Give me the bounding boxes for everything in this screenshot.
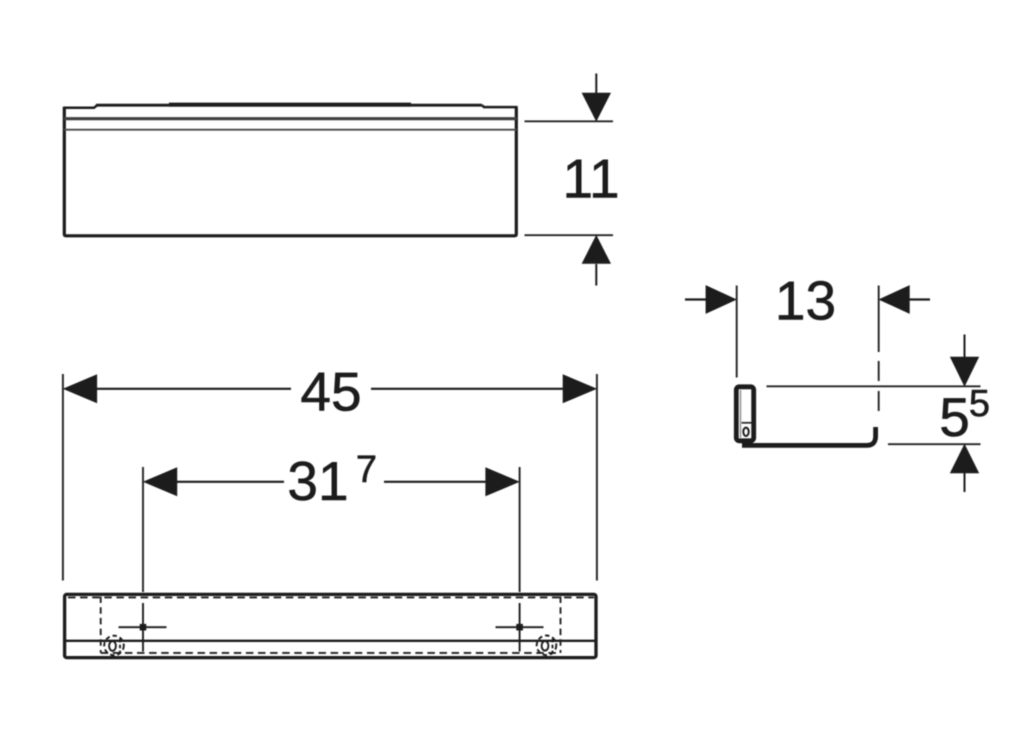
dim 11 top arrow: [583, 74, 610, 121]
front view lower thin line: [64, 129, 517, 131]
svg-text:31: 31: [287, 450, 348, 512]
side view wall flange: [736, 387, 753, 441]
plan view hidden bottom edge (dashed): [101, 652, 561, 654]
front view top edge right segment: [482, 105, 518, 107]
dim 45 left extension line: [62, 374, 64, 581]
dim 45 right extension line: [596, 374, 598, 581]
dim 13 right extension line dashed part: [878, 361, 880, 411]
dim 11 bottom extension line: [525, 234, 614, 236]
svg-text:5: 5: [969, 383, 990, 425]
right mounting hole centerline horizontal: [496, 626, 544, 628]
dim 13 right extension line solid part: [878, 286, 880, 353]
dim 5.5 top reference line: [767, 385, 981, 387]
right mounting hole center dot: [516, 624, 523, 631]
svg-text:7: 7: [356, 449, 377, 491]
front view shelf body outline: [63, 105, 518, 236]
left mounting hole center dot: [140, 624, 147, 631]
dim 45 line right part: [371, 388, 566, 390]
value labels (kept outside the blur filter): [287, 148, 990, 513]
side view bottom leg with upturned lip: [742, 427, 876, 445]
plan view inner front edge line: [65, 640, 596, 642]
dim 13 left arrow: [706, 286, 735, 313]
svg-text:45: 45: [300, 361, 361, 423]
right mounting hole centerline vertical: [519, 603, 521, 652]
left mounting hole centerline vertical: [142, 603, 144, 652]
dim 31.7 right extension line: [519, 467, 521, 592]
plan view outer body: [65, 594, 596, 657]
svg-text:13: 13: [775, 270, 836, 332]
dim 31.7 left arrow: [144, 468, 176, 495]
dim 31.7 left extension line: [142, 467, 144, 592]
dim 5.5 bottom arrow: [951, 445, 978, 492]
front view seat line (gray): [64, 117, 517, 120]
dim 45 left arrow: [64, 375, 96, 402]
plan view hidden top edge (dashed): [68, 596, 594, 598]
dim 45 line left part: [96, 388, 291, 390]
dim 13 left extension line: [736, 286, 738, 378]
dim 45 right arrow: [563, 375, 595, 402]
front view top edge thick overlay: [169, 103, 411, 107]
dim 31.7 line right part: [384, 481, 488, 483]
left screw symbol (dashed circle with slot): [104, 636, 124, 656]
front view top edge main segment: [96, 104, 482, 107]
dim 13 line right stub: [907, 298, 931, 300]
left mounting hole centerline horizontal: [119, 626, 167, 628]
dim 31.7 line left part: [175, 481, 284, 483]
dim 31.7 right arrow: [486, 468, 518, 495]
dim 13 line left stub: [685, 298, 708, 300]
dim 5.5 top arrow: [951, 335, 978, 386]
svg-text:11: 11: [562, 148, 619, 210]
front view top edge left segment: [63, 105, 97, 108]
right screw symbol (dashed circle with slot): [537, 636, 557, 656]
svg-text:5: 5: [939, 386, 970, 448]
dim 13 right arrow: [880, 286, 909, 313]
dim 11 bottom arrow: [583, 236, 610, 285]
side view screw detail inside flange: [742, 423, 755, 441]
dim 5.5 bottom reference line: [888, 443, 981, 445]
plan view hidden right edge (dashed): [560, 597, 562, 653]
plan view hidden left edge (dashed): [100, 597, 102, 653]
side view flange inner line: [740, 390, 742, 438]
dim 11 top extension line: [525, 120, 614, 122]
